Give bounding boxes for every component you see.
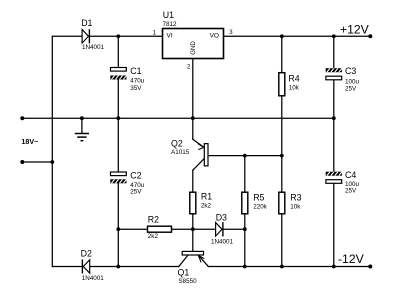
svg-text:25V: 25V xyxy=(345,86,357,93)
svg-text:7812: 7812 xyxy=(163,21,178,28)
wire R5 node to bottom rail xyxy=(244,229,246,266)
svg-text:VO: VO xyxy=(210,33,219,40)
wire Q1 collector diagonal xyxy=(179,255,188,267)
svg-text:470u: 470u xyxy=(130,78,145,85)
svg-text:18V~: 18V~ xyxy=(21,137,38,146)
capacitor C2 xyxy=(110,172,126,183)
wire Q2 base line xyxy=(208,155,281,157)
node dots top rail xyxy=(116,34,372,38)
node dots mid rail xyxy=(20,116,335,120)
node dots AC lower xyxy=(20,160,54,164)
diode D1 xyxy=(82,29,89,43)
wire D3 cathode to R5 node xyxy=(223,228,245,230)
svg-text:C1: C1 xyxy=(130,66,141,76)
wire C4 column bottom xyxy=(333,183,335,266)
svg-text:R1: R1 xyxy=(201,192,212,202)
svg-text:VI: VI xyxy=(167,33,173,40)
resistor R3 xyxy=(279,192,285,214)
wire base line to R3 xyxy=(281,156,283,193)
wire C3 column bottom xyxy=(333,80,335,118)
wire R4 top xyxy=(281,36,283,72)
svg-text:D1: D1 xyxy=(81,18,92,28)
wire R3 bottom to rail xyxy=(281,214,283,267)
ground symbol xyxy=(75,134,89,141)
svg-text:R4: R4 xyxy=(288,74,299,84)
node dots base line xyxy=(243,154,284,158)
svg-text:2k2: 2k2 xyxy=(201,203,212,210)
transistor Q1 xyxy=(182,251,204,262)
wire AC lower terminal xyxy=(22,161,52,163)
wire C1 column bottom xyxy=(117,80,119,119)
wire mid ground rail xyxy=(22,117,334,119)
wire C3 column top xyxy=(333,36,335,68)
U1 pin labels xyxy=(167,33,220,55)
wire Q2 emitter vertical xyxy=(192,118,194,139)
svg-text:D3: D3 xyxy=(216,213,227,223)
wire ground stub xyxy=(81,118,83,133)
wire Q1 emitter diagonal xyxy=(198,255,208,266)
resistor R5 xyxy=(242,192,248,214)
U1 pin numbers xyxy=(153,30,234,71)
diode D3 xyxy=(216,222,223,236)
svg-text:25V: 25V xyxy=(345,188,357,195)
node dots bottom rail xyxy=(116,265,372,269)
wire U1 VO to +12V terminal xyxy=(224,35,371,37)
capacitor C3 xyxy=(326,68,342,80)
svg-text:R5: R5 xyxy=(253,192,264,202)
svg-text:A1015: A1015 xyxy=(171,149,190,156)
wire Q2 emitter diagonal xyxy=(193,139,204,147)
svg-text:1N4001: 1N4001 xyxy=(82,275,105,282)
svg-text:+12V: +12V xyxy=(340,23,370,37)
wire C2 column top xyxy=(117,118,119,172)
svg-text:-12V: -12V xyxy=(338,252,365,266)
capacitor C1 xyxy=(110,68,126,80)
wire node to D3 anode xyxy=(193,228,216,230)
svg-text:GND: GND xyxy=(190,41,197,55)
resistor R2 xyxy=(148,226,172,232)
resistor R4 xyxy=(279,73,285,96)
diode D2 xyxy=(82,260,89,274)
svg-text:C2: C2 xyxy=(130,170,141,180)
capacitor C4 xyxy=(326,172,342,184)
wire D2 anode to Q1 collector xyxy=(90,266,179,268)
wire R4 bottom to base line xyxy=(281,96,283,156)
wire bottom rail left of D2 xyxy=(52,266,82,268)
svg-text:10k: 10k xyxy=(290,204,301,211)
svg-text:R2: R2 xyxy=(148,215,159,225)
wire left rail vertical xyxy=(51,36,53,266)
resistor R1 xyxy=(190,192,196,214)
svg-text:25V: 25V xyxy=(130,189,142,196)
svg-text:Q2: Q2 xyxy=(171,138,183,148)
wire C2 column bottom xyxy=(117,183,119,266)
regulator U1 box xyxy=(163,29,224,59)
svg-text:C3: C3 xyxy=(345,66,356,76)
wire node to Q1 base xyxy=(192,229,194,251)
wire D1 cathode to U1 VI xyxy=(90,35,163,37)
wire R5 top xyxy=(244,156,246,193)
svg-text:C4: C4 xyxy=(345,170,356,180)
svg-text:S8550: S8550 xyxy=(178,278,197,285)
wire Q2 collector to R1 xyxy=(192,170,194,192)
wire U1 GND pin xyxy=(192,59,194,119)
svg-text:35V: 35V xyxy=(130,85,142,92)
wire R5 bottom xyxy=(244,214,246,229)
wire Q2 collector diagonal xyxy=(193,159,205,171)
wire C4 column top xyxy=(333,118,335,172)
wire Q1 emitter to -12V terminal xyxy=(208,266,370,268)
svg-text:2k2: 2k2 xyxy=(148,233,159,240)
svg-text:D2: D2 xyxy=(81,248,92,258)
node dots R2 D3 line xyxy=(116,227,246,231)
svg-text:U1: U1 xyxy=(163,10,174,20)
wire top rail left of D1 xyxy=(52,35,82,37)
transistor Q2 xyxy=(198,144,208,166)
svg-text:1N4001: 1N4001 xyxy=(211,239,234,246)
wire C1 column top xyxy=(117,36,119,67)
svg-text:10k: 10k xyxy=(289,85,300,92)
svg-text:R3: R3 xyxy=(290,192,301,202)
svg-text:1N4001: 1N4001 xyxy=(82,44,105,51)
svg-text:220k: 220k xyxy=(253,204,268,211)
wire R1 bottom to node xyxy=(192,214,194,229)
wire R2 right xyxy=(172,228,193,230)
svg-text:Q1: Q1 xyxy=(178,267,190,277)
wire R2 left xyxy=(118,228,147,230)
